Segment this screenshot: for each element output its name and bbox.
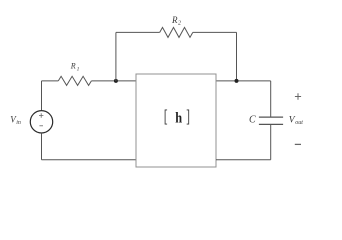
wire bottom right — [216, 159, 271, 161]
svg-text:1: 1 — [77, 66, 80, 72]
wire left to R1 — [42, 80, 59, 82]
label [ h ] bracket left — [165, 110, 167, 124]
plus sign inside source — [39, 113, 43, 117]
wire down to node B — [236, 32, 238, 81]
voltage source Vin — [30, 111, 52, 133]
wire R2 to right corner — [193, 31, 237, 33]
minus sign output — [295, 143, 301, 145]
wire box right to output — [216, 80, 271, 82]
node B junction dot — [235, 79, 239, 83]
capacitor C plates — [259, 117, 283, 124]
resistor R1 — [58, 76, 91, 85]
wire capacitor top lead — [270, 81, 272, 117]
svg-text:R: R — [171, 15, 178, 25]
wire R1 to node A — [91, 80, 136, 82]
node A junction dot — [114, 79, 118, 83]
svg-text:out: out — [295, 120, 303, 126]
svg-text:h: h — [175, 110, 182, 126]
svg-text:in: in — [16, 120, 21, 126]
label [ h ] bracket right — [187, 110, 189, 124]
svg-text:2: 2 — [178, 20, 181, 26]
wire V_in bottom lead — [41, 133, 43, 160]
wire bottom left — [42, 159, 137, 161]
svg-text:R: R — [70, 62, 76, 71]
wire capacitor bottom lead — [270, 124, 272, 159]
resistor R2 — [160, 27, 193, 37]
wire top left to R2 — [116, 31, 160, 33]
svg-text:C: C — [249, 115, 256, 126]
wire V_in top lead — [41, 81, 43, 111]
minus sign inside source — [39, 125, 43, 127]
wire node A up — [115, 32, 117, 81]
two-port box [h] — [136, 74, 216, 167]
plus sign output — [295, 93, 301, 99]
